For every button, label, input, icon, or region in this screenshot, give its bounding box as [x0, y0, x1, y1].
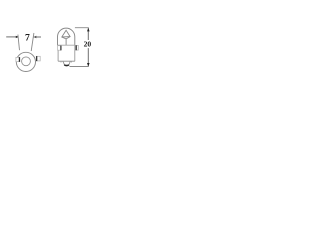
- right pin (side view): [75, 45, 78, 50]
- dimension line right segment (7 dim): [34, 36, 41, 38]
- inner circle (base barrel end view): [22, 57, 31, 66]
- arrowhead up: [87, 28, 90, 31]
- svg-text:7: 7: [25, 33, 30, 44]
- bottom extension line (20 dim): [70, 66, 89, 68]
- insulator tick left: [60, 61, 62, 62]
- stem wire: [65, 39, 67, 45]
- contact dark bottom: [64, 64, 69, 67]
- filament chord: [62, 36, 70, 38]
- dimension line left segment (7 dim): [6, 36, 18, 38]
- vertical dimension line lower part: [87, 48, 89, 66]
- outer circle (bulb end view): [16, 52, 35, 71]
- filament rhombus: [62, 30, 70, 39]
- solder contact tip (trapezoid): [63, 61, 70, 65]
- extension line left: [18, 35, 20, 51]
- right bayonet pin (end view): [36, 56, 40, 61]
- left bayonet pin (end view): [16, 57, 20, 61]
- arrowhead right (points left): [33, 36, 36, 38]
- svg-text:20: 20: [84, 40, 92, 49]
- glass/base junction line: [58, 44, 75, 46]
- arrowhead left (points right): [16, 36, 19, 38]
- insulator tick right: [70, 61, 72, 62]
- base right side: [74, 45, 76, 61]
- top extension line (20 dim): [75, 27, 89, 29]
- vertical dimension line upper part: [87, 28, 89, 40]
- extension line right: [31, 33, 34, 51]
- bulb dome (side view): [58, 28, 75, 45]
- base bottom line: [58, 60, 75, 62]
- arrowhead down: [87, 63, 90, 66]
- left pin (side view): [58, 46, 61, 51]
- background: [0, 0, 103, 78]
- base left side: [57, 45, 59, 61]
